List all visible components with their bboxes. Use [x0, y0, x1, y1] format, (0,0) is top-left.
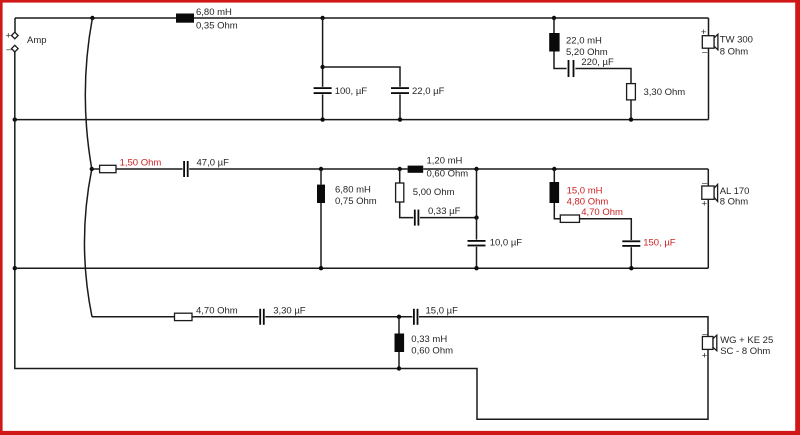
svg-text:0,33 µF: 0,33 µF: [428, 206, 461, 217]
wire 15uF to WG speaker: [419, 317, 708, 337]
wire 22mH branch top: [553, 18, 555, 33]
resistor 3,30 Ohm: [627, 84, 686, 100]
svg-text:1,20 mH: 1,20 mH: [427, 156, 463, 167]
wire 15mH verticals: [554, 169, 560, 219]
svg-text:10,0 µF: 10,0 µF: [490, 238, 523, 249]
wire mid rail down to AL170: [707, 169, 709, 186]
svg-text:4,80 Ohm: 4,80 Ohm: [567, 197, 609, 208]
wire 4,70 Ohm to 3,30uF: [192, 316, 259, 318]
capacitor 10,0 uF: [468, 238, 523, 249]
node split 100uF/22uF: [320, 65, 324, 69]
capacitor 0,33 uF: [414, 206, 461, 226]
source Amp terminals: [6, 31, 47, 55]
node notch filter right: [474, 167, 478, 171]
node top rail to 22mH branch: [552, 16, 556, 20]
svg-text:0,33 mH: 0,33 mH: [411, 334, 447, 345]
svg-text:Amp: Amp: [27, 35, 47, 46]
node bottom rail 3,30 Ohm: [629, 117, 633, 121]
wire 100uF branch lower: [322, 94, 324, 119]
svg-text:+: +: [702, 199, 708, 210]
wire notch R to C: [400, 169, 414, 218]
svg-text:+: +: [702, 351, 708, 362]
speaker AL 170 8 Ohm: [702, 177, 750, 209]
node left rail mid: [13, 266, 17, 270]
svg-text:0,35 Ohm: 0,35 Ohm: [196, 21, 238, 32]
wire mid section bottom rail: [15, 267, 709, 269]
wire curved fan-out from midrange branch to woofer branch: [84, 169, 92, 317]
svg-text:6,80 mH: 6,80 mH: [335, 184, 371, 195]
svg-text:6,80 mH: 6,80 mH: [196, 7, 232, 18]
svg-text:4,70 Ohm: 4,70 Ohm: [581, 207, 623, 218]
svg-text:3,30 µF: 3,30 µF: [273, 305, 306, 316]
wire top rail down to tweeter: [708, 18, 710, 36]
capacitor 47,0 uF: [183, 158, 229, 177]
wire 10uF branch lower: [476, 247, 478, 268]
wire top rail left segment: [15, 17, 176, 19]
wire tweeter to bottom rail: [708, 48, 710, 119]
wire midrange to 1,50 Ohm: [92, 168, 100, 170]
wire 1,50 Ohm to 47uF: [116, 168, 183, 170]
capacitor 100, uF: [314, 86, 368, 97]
svg-text:47,0 µF: 47,0 µF: [197, 158, 230, 169]
resistor 4,70 Ohm (mid): [560, 207, 623, 222]
node midrange branch start: [90, 167, 94, 171]
wire 3,30uF to 15uF: [265, 316, 412, 318]
svg-text:150, µF: 150, µF: [643, 238, 676, 249]
node 6,80mH shunt: [319, 167, 323, 171]
wire AL170 to mid bottom rail: [707, 199, 709, 268]
capacitor 3,30 uF: [259, 305, 306, 325]
svg-text:22,0 mH: 22,0 mH: [566, 36, 602, 47]
svg-text:1,50 Ohm: 1,50 Ohm: [120, 158, 162, 169]
svg-text:220, µF: 220, µF: [581, 57, 614, 68]
node 15mH branch top: [552, 167, 556, 171]
speaker WG + KE 25 SC 8 Ohm: [702, 329, 774, 362]
svg-text:WG + KE 25: WG + KE 25: [720, 335, 773, 346]
capacitor 220, uF: [568, 57, 614, 77]
svg-text:3,30 Ohm: 3,30 Ohm: [644, 87, 686, 98]
svg-text:AL 170: AL 170: [720, 186, 750, 197]
wire tweeter section bottom rail: [15, 119, 709, 121]
wire woofer branch from curve: [92, 316, 175, 318]
svg-text:–: –: [702, 47, 708, 58]
svg-text:SC - 8 Ohm: SC - 8 Ohm: [720, 346, 770, 357]
inductor 15,0 mH 4,80 Ohm: [550, 182, 609, 208]
node 0,33mH bottom rail: [397, 366, 401, 370]
inductor 6,80 mH 0,35 Ohm: [176, 7, 238, 32]
inductor 22,0 mH 5,20 Ohm: [549, 33, 608, 58]
wire from Amp + up to top rail: [14, 18, 16, 32]
wire notch C to junction: [420, 217, 477, 219]
wire Amp - down the left rail: [15, 52, 399, 369]
node tap of fan-out curve on top rail: [90, 16, 94, 20]
resistor 4,70 Ohm (woofer): [175, 305, 238, 320]
wire 6,80mH shunt verticals: [320, 169, 322, 268]
resistor 1,50 Ohm: [100, 158, 162, 173]
capacitor 150, uF: [622, 238, 676, 249]
node 0,33mH shunt top: [397, 315, 401, 319]
wire 0,33mH verticals: [398, 317, 400, 369]
wire horizontal link to 22uF branch: [323, 67, 400, 87]
node bottom rail 22uF: [398, 117, 402, 121]
resistor 5,00 Ohm: [396, 183, 455, 202]
wire woofer bottom rail with step: [399, 349, 708, 419]
node top rail to 100uF branch: [320, 16, 324, 20]
wire 22uF branch lower: [399, 94, 401, 119]
wire 4,70 Ohm to 150uF: [580, 219, 632, 240]
node mid rail 150uF: [629, 266, 633, 270]
wire curved fan-out from top rail to midrange branch: [85, 18, 92, 169]
inductor 0,33 mH 0,60 Ohm shunt: [395, 334, 454, 357]
wire after 1,20mH: [423, 168, 708, 170]
svg-text:8 Ohm: 8 Ohm: [720, 197, 749, 208]
wire vertical 100uF branch upper: [322, 18, 324, 87]
capacitor 15,0 uF: [413, 305, 458, 325]
wire 220uF to 3,30 Ohm resistor: [575, 69, 631, 84]
svg-text:15,0 mH: 15,0 mH: [567, 185, 603, 196]
node notch RC junction: [474, 215, 478, 219]
node bottom rail left: [13, 117, 17, 121]
node mid rail 6,80mH: [319, 266, 323, 270]
wire 150uF to mid bottom rail: [630, 247, 632, 268]
svg-text:15,0 µF: 15,0 µF: [426, 305, 459, 316]
node bottom rail 100uF: [320, 117, 324, 121]
svg-text:TW 300: TW 300: [720, 35, 753, 46]
wire 3,30 Ohm to bottom rail: [630, 100, 632, 120]
wire top rail right segment: [194, 17, 709, 19]
svg-text:0,60 Ohm: 0,60 Ohm: [411, 345, 453, 356]
wire 10uF branch upper: [476, 169, 478, 240]
svg-text:4,70 Ohm: 4,70 Ohm: [196, 305, 238, 316]
capacitor 22,0 uF: [391, 86, 445, 97]
svg-text:0,75 Ohm: 0,75 Ohm: [335, 196, 377, 207]
svg-text:0,60 Ohm: 0,60 Ohm: [427, 169, 469, 180]
inductor 6,80 mH 0,75 Ohm shunt: [317, 184, 377, 207]
svg-text:+: +: [6, 31, 12, 42]
wire 22mH to 220uF: [554, 52, 567, 69]
inductor 1,20 mH 0,60 Ohm: [408, 156, 469, 180]
speaker TW 300 8 Ohm: [701, 27, 753, 58]
svg-text:8 Ohm: 8 Ohm: [720, 47, 749, 58]
svg-text:5,00 Ohm: 5,00 Ohm: [413, 187, 455, 198]
wire 47uF to mid network: [189, 168, 407, 170]
svg-text:22,0 µF: 22,0 µF: [412, 86, 445, 97]
svg-text:100, µF: 100, µF: [335, 86, 368, 97]
node mid rail 10uF: [474, 266, 478, 270]
node notch filter left: [398, 167, 402, 171]
